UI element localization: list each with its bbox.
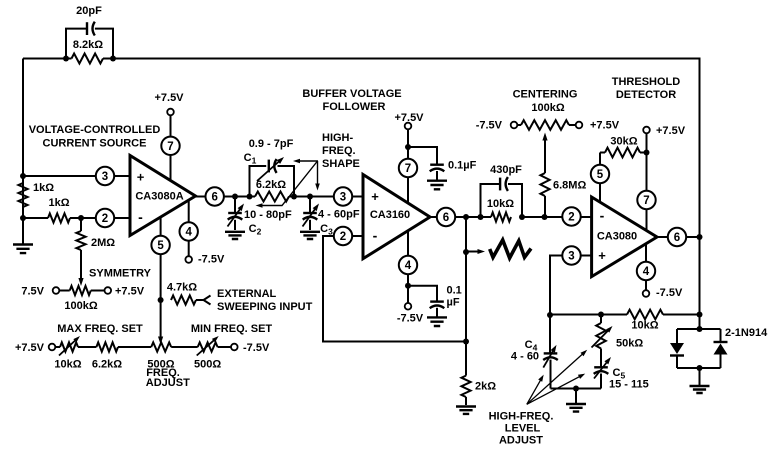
svg-text:7: 7 (643, 195, 649, 207)
svg-text:-7.5V: -7.5V (397, 313, 424, 325)
terminal +7.5V freq row (49, 344, 56, 351)
svg-text:BUFFER VOLTAGE: BUFFER VOLTAGE (302, 88, 401, 100)
svg-text:+7.5V: +7.5V (15, 342, 45, 354)
wire CA3160 output (430, 216, 491, 218)
svg-text:7: 7 (167, 141, 173, 153)
label -7.5V CA3160 (397, 313, 424, 325)
pin 2 CA3080A (96, 209, 114, 227)
node 2M tap (78, 215, 84, 221)
node hysteresis right (697, 312, 703, 318)
svg-text:2kΩ: 2kΩ (475, 381, 496, 393)
svg-text:EXTERNAL: EXTERNAL (217, 288, 277, 300)
node C1-box left (247, 194, 253, 200)
op-amp U3 CA3080 threshold (592, 197, 657, 277)
label CA3080 (597, 231, 637, 243)
resistor 6.2k&#937; freq row (96, 342, 118, 351)
ground 0.1uF pin4 (427, 317, 447, 326)
label HIGH-FREQ. SHAPE (322, 132, 360, 170)
terminal -7.5V centering (511, 122, 518, 129)
label C2 (249, 223, 262, 237)
label +7.5V CA3160 (394, 112, 424, 124)
node 30k junction (644, 150, 650, 156)
node CA3160 pin7 cap tap (405, 144, 411, 150)
terminal -7.5V freq row (231, 344, 238, 351)
wire pin 7 supply CA3080A (170, 112, 172, 181)
node 6.8M tap (542, 214, 548, 220)
pin 5 CA3080 threshold (591, 165, 609, 183)
svg-text:SYMMETRY: SYMMETRY (89, 268, 152, 280)
pin 7 CA3160 (399, 159, 417, 177)
capacitor 20pF (parallel, top loop) (66, 22, 113, 59)
label 8.2k&#937; (73, 39, 103, 51)
svg-text:HIGH-FREQ.: HIGH-FREQ. (489, 411, 554, 423)
label 6.8M&#937; (553, 180, 586, 192)
wire pin5 to freq-adjust arrow (158, 300, 163, 345)
label 100k&#937; symmetry (64, 300, 97, 312)
label 1k&#937; vertical (33, 182, 54, 194)
svg-text:1kΩ: 1kΩ (33, 182, 54, 194)
wire 2M to symmetry wiper arrow (78, 250, 83, 286)
wire 1k to pin 2 (70, 217, 130, 219)
pin 6 CA3080A (206, 187, 224, 205)
svg-text:100kΩ: 100kΩ (531, 102, 564, 114)
wire pin 4 CA3160 (407, 231, 409, 307)
terminal -7.5V threshold (643, 290, 650, 297)
node top-left of 8.2k (63, 56, 69, 62)
wire to CA3160 pin3 (294, 196, 363, 198)
op-amp U1 CA3080A (130, 156, 196, 236)
resistor 6.8M&#937; (540, 153, 549, 217)
resistor 2k&#937; (461, 342, 470, 406)
label CURRENT SOURCE (43, 138, 147, 150)
label 4 - 60 (511, 351, 539, 363)
svg-text:-7.5V: -7.5V (476, 120, 503, 132)
svg-text:10kΩ: 10kΩ (487, 198, 514, 210)
op-amp U2 CA3160 (363, 175, 430, 259)
svg-text:+7.5V: +7.5V (154, 92, 184, 104)
label 15 - 115 (609, 379, 649, 391)
svg-text:MIN FREQ. SET: MIN FREQ. SET (191, 323, 273, 335)
wire 500-500 (171, 346, 198, 348)
label HIGH-FREQ. (489, 411, 554, 423)
resistor 1k&#937; (vertical) (18, 183, 27, 207)
svg-text:4: 4 (405, 260, 412, 272)
node pin5 sweep tap (158, 297, 164, 303)
capacitor 430pF (481, 177, 523, 217)
label -7.5V freq row (243, 342, 270, 354)
node CA3160 output tap (463, 214, 469, 220)
svg-text:2: 2 (340, 231, 346, 243)
pin 6 CA3160 (437, 208, 455, 226)
wire diode top bus (677, 328, 721, 330)
svg-text:+7.5V: +7.5V (656, 125, 686, 137)
wire pin 2 feedback CA3160 (323, 236, 466, 342)
ground 2k (456, 407, 476, 414)
pin 3 CA3160 (334, 187, 352, 205)
label 0.1uF pin4 (447, 285, 462, 309)
pin 7 CA3080 threshold (637, 191, 655, 209)
svg-text:10kΩ: 10kΩ (54, 359, 81, 371)
label VOLTAGE-CONTROLLED (29, 124, 161, 136)
label 4 - 60pF (318, 209, 360, 221)
label C1 (244, 152, 257, 166)
wire pin 3 CA3080 threshold (550, 256, 592, 316)
arrow shape-to-C1 (293, 159, 318, 164)
svg-text:THRESHOLD: THRESHOLD (612, 76, 681, 88)
label +7.5V symmetry (115, 286, 145, 298)
svg-text:CENTERING: CENTERING (513, 89, 578, 101)
svg-text:4: 4 (643, 266, 650, 278)
arrow shape-to-C2 (256, 161, 318, 208)
terminal +7.5V symmetry right (105, 287, 112, 294)
svg-text:FREQ.: FREQ. (322, 145, 356, 157)
label 500&#937; freq adjust (147, 359, 174, 371)
wire top rail to right side (113, 59, 700, 330)
svg-text:ADJUST: ADJUST (146, 377, 190, 389)
capacitor 0.1uF (pin4 bypass) (408, 286, 444, 317)
label SWEEPING INPUT (217, 301, 313, 313)
potentiometer 50k&#937; (592, 315, 613, 349)
svg-text:5: 5 (597, 169, 604, 181)
svg-text:-7.5V: -7.5V (656, 287, 683, 299)
svg-text:100kΩ: 100kΩ (64, 300, 97, 312)
label +7.5V threshold (656, 125, 686, 137)
wire pin 5 CA3080A (160, 217, 162, 300)
svg-text:6.2kΩ: 6.2kΩ (92, 359, 122, 371)
label C3 (320, 223, 333, 237)
ground C4/C5 (566, 389, 586, 412)
node C3 tap (307, 194, 313, 200)
svg-text:CA3080A: CA3080A (135, 191, 183, 203)
label C5 (613, 367, 626, 381)
node feedback junction (463, 339, 469, 345)
label 0.9 - 7pF (249, 138, 294, 150)
pin 6 CA3080 threshold (668, 228, 686, 246)
resistor 10k&#937; hysteresis (627, 310, 700, 320)
svg-text:LEVEL: LEVEL (505, 423, 541, 435)
label 6.2k&#937; freq row (92, 359, 122, 371)
capacitor C5 15-115 (variable) (594, 349, 611, 389)
svg-text:4 - 60: 4 - 60 (511, 351, 539, 363)
svg-text:4.7kΩ: 4.7kΩ (167, 282, 197, 294)
svg-text:4 - 60pF: 4 - 60pF (318, 209, 360, 221)
svg-text:SWEEPING INPUT: SWEEPING INPUT (217, 301, 313, 313)
label 2-1N914 (725, 327, 768, 339)
svg-text:CURRENT SOURCE: CURRENT SOURCE (43, 138, 147, 150)
ground 0.1uF pin7 (427, 181, 447, 190)
svg-text:-: - (138, 209, 143, 225)
svg-text:-: - (373, 228, 378, 244)
svg-text:20pF: 20pF (76, 5, 102, 17)
svg-text:50kΩ: 50kΩ (616, 338, 643, 350)
wire 10k-6.2k (78, 346, 96, 348)
node 50k tap (598, 312, 604, 318)
resistor 2M&#937; (76, 218, 85, 250)
ground left rail (13, 218, 33, 253)
resistor 6.2k&#937; (C1 box) (255, 192, 294, 202)
pin 2 CA3160 (334, 227, 352, 245)
pin 2 CA3080 threshold (562, 207, 580, 225)
wire 430pF box to pin2 (522, 216, 592, 218)
label CA3160 (370, 209, 410, 221)
svg-text:6: 6 (674, 232, 680, 244)
waveform triangle symbol (490, 240, 531, 258)
svg-text:ADJUST: ADJUST (499, 435, 543, 447)
label CA3080A (135, 191, 183, 203)
node diode top (697, 326, 703, 332)
node 430pF-box left (478, 214, 484, 220)
label 10k&#937; max (54, 359, 81, 371)
arrow level-to-C5 (527, 374, 585, 405)
svg-text:3: 3 (102, 171, 108, 183)
wire top-left rail to 8.2k node (23, 58, 66, 60)
label ADJUST (499, 435, 543, 447)
label 20pF (76, 5, 102, 17)
svg-text:+7.5V: +7.5V (590, 120, 620, 132)
wire CA3080A output (196, 196, 256, 198)
label BUFFER VOLTAGE (302, 88, 401, 100)
label 10k&#937; hysteresis (631, 320, 658, 332)
node top-right of 8.2k (110, 56, 116, 62)
node bottom ground tap (573, 386, 579, 392)
svg-text:0.1: 0.1 (447, 285, 462, 297)
pin 4 CA3080A (180, 222, 198, 240)
wire 500 to -7.5V terminal (218, 346, 231, 348)
svg-text:+: + (371, 189, 379, 204)
resistor 8.2k&#937; (series, top loop) (66, 54, 113, 64)
potentiometer 100k&#937; SYMMETRY (59, 286, 105, 295)
terminal +7.5V CA3080A pin7 (167, 109, 174, 116)
svg-text:430pF: 430pF (490, 164, 522, 176)
wire CA3080 output (657, 236, 700, 238)
potentiometer 10k&#937; MAX FREQ. SET (55, 336, 80, 356)
terminal +7.5V threshold (643, 127, 650, 134)
svg-text:7: 7 (405, 163, 411, 175)
node C1-box right (291, 194, 297, 200)
terminal -7.5V CA3160 (405, 303, 412, 310)
wire diode bottom bus (677, 367, 721, 369)
svg-text:CA3160: CA3160 (370, 209, 410, 221)
pin 3 CA3080 threshold (562, 246, 580, 264)
svg-text:6: 6 (443, 212, 449, 224)
label +7.5V centering (590, 120, 620, 132)
svg-text:2: 2 (102, 213, 108, 225)
label +7.5V CA3080A (154, 92, 184, 104)
resistor 4.7k&#937; (171, 295, 204, 304)
svg-text:FOLLOWER: FOLLOWER (323, 101, 386, 113)
node 430pF-box right (519, 214, 525, 220)
label 30k&#937; (610, 136, 637, 148)
svg-text:6: 6 (211, 192, 217, 204)
pin 7 CA3080A (161, 137, 179, 155)
svg-text:5: 5 (157, 240, 164, 252)
node left rail pin3 tap (20, 173, 26, 179)
arrow centering wiper (542, 133, 547, 154)
potentiometer 500&#937; MIN FREQ. SET (197, 336, 219, 356)
svg-text:1kΩ: 1kΩ (48, 197, 69, 209)
label EXTERNAL (217, 288, 277, 300)
terminal 7.5V symmetry left (53, 287, 60, 294)
label 10k&#937; threshold-in (487, 198, 514, 210)
svg-text:2-1N914: 2-1N914 (725, 327, 768, 339)
svg-text:30kΩ: 30kΩ (610, 136, 637, 148)
label 1k&#937; horizontal (48, 197, 69, 209)
svg-text:3: 3 (568, 251, 574, 263)
pin 4 CA3080 threshold (637, 262, 655, 280)
terminal +7.5V centering (576, 122, 583, 129)
capacitor C2 10-80pF (variable) (228, 197, 245, 231)
label 7.5V (21, 286, 44, 298)
capacitor C4 4-60 (variable) (543, 315, 558, 389)
label DETECTOR (616, 89, 676, 101)
label FOLLOWER (323, 101, 386, 113)
label 100k&#937; centering (531, 102, 564, 114)
svg-text:7.5V: 7.5V (21, 286, 44, 298)
label LEVEL (505, 423, 541, 435)
label CENTERING (513, 89, 578, 101)
svg-text:-: - (600, 208, 605, 224)
label C4 (525, 339, 538, 353)
svg-text:DETECTOR: DETECTOR (616, 89, 676, 101)
wire pin 5 CA3080 threshold (599, 153, 601, 203)
wire pin 4 CA3080 threshold (645, 244, 647, 294)
svg-text:SHAPE: SHAPE (322, 158, 360, 170)
label 10 - 80pF (244, 209, 292, 221)
node left rail bottom (20, 215, 26, 221)
svg-text:+: + (137, 170, 145, 185)
label 6.2k&#937; C1 box (256, 179, 286, 191)
resistor 10k&#937; (to threshold) (491, 212, 511, 221)
pin 4 CA3160 (399, 256, 417, 274)
svg-text:VOLTAGE-CONTROLLED: VOLTAGE-CONTROLLED (29, 124, 161, 136)
svg-text:-7.5V: -7.5V (198, 254, 225, 266)
node pin3 junction (547, 312, 553, 318)
label -7.5V CA3080A (198, 254, 225, 266)
svg-text:+7.5V: +7.5V (115, 286, 145, 298)
svg-text:MAX FREQ. SET: MAX FREQ. SET (57, 323, 143, 335)
label -7.5V centering (476, 120, 503, 132)
resistor 30k&#937; (600, 148, 647, 158)
ground C2 (225, 232, 245, 239)
diode D2 1N914 (right) (714, 329, 728, 368)
label 4.7k&#937; (167, 282, 197, 294)
pin 5 CA3080A (151, 236, 169, 254)
pin 3 CA3080A (96, 167, 114, 185)
capacitor C1 0.9-7pF (variable) (250, 157, 295, 197)
label SYMMETRY (89, 268, 152, 280)
label 2M&#937; (91, 237, 115, 249)
arrow waveform pointer (466, 249, 485, 254)
label MIN FREQ. SET (191, 323, 273, 335)
wire C4-C5 bottom (551, 388, 602, 390)
terminal -7.5V CA3080A pin4 (185, 256, 192, 263)
label THRESHOLD (612, 76, 681, 88)
wire hysteresis row (550, 314, 627, 316)
svg-text:-7.5V: -7.5V (243, 342, 270, 354)
label FREQ. (146, 367, 180, 379)
node diode bottom (697, 365, 703, 371)
svg-text:2MΩ: 2MΩ (91, 237, 115, 249)
svg-text:µF: µF (447, 297, 460, 309)
wire pin 4 CA3080A (188, 200, 190, 260)
diode D1 1N914 (left) (670, 329, 684, 368)
node output right rail (697, 234, 703, 240)
wire 6.2k-500 (118, 346, 151, 348)
label -7.5V threshold (656, 287, 683, 299)
wire pin 3 input CA3080A (23, 175, 130, 177)
node C2 tap (232, 194, 238, 200)
capacitor C3 4-60pF (variable) (303, 197, 320, 231)
svg-text:10kΩ: 10kΩ (631, 320, 658, 332)
svg-text:6.8MΩ: 6.8MΩ (553, 180, 586, 192)
svg-text:3: 3 (340, 192, 346, 204)
svg-text:+: + (598, 248, 606, 263)
label 2k&#937; (475, 381, 496, 393)
svg-text:+7.5V: +7.5V (394, 112, 424, 124)
capacitor 0.1uF (pin7 bypass) (408, 147, 444, 180)
label 430pF (490, 164, 522, 176)
ground diodes (690, 368, 710, 393)
wire threshold supply (646, 133, 648, 230)
arrow level-to-50k (527, 350, 587, 405)
ground C3 (300, 232, 320, 239)
node CA3160 pin4 cap tap (405, 283, 411, 289)
potentiometer 500&#937; FREQ. ADJUST (151, 342, 171, 351)
svg-text:15 - 115: 15 - 115 (609, 379, 649, 391)
svg-text:CA3080: CA3080 (597, 231, 637, 243)
arrow level-to-C4 (527, 375, 544, 405)
label ADJUST (146, 377, 190, 389)
label 0.1uF pin7 (448, 160, 477, 172)
svg-text:4: 4 (185, 227, 192, 239)
connector external sweeping input (204, 296, 211, 305)
label 50k&#937; (616, 338, 643, 350)
node waveform tap (463, 249, 469, 255)
label 500&#937; min (194, 359, 221, 371)
svg-text:10 - 80pF: 10 - 80pF (244, 209, 292, 221)
label +7.5V freq row (15, 342, 45, 354)
svg-text:6.2kΩ: 6.2kΩ (256, 179, 286, 191)
label MAX FREQ. SET (57, 323, 143, 335)
wire output down (465, 217, 467, 342)
wire left rail (22, 59, 24, 219)
svg-text:8.2kΩ: 8.2kΩ (73, 39, 103, 51)
terminal +7.5V CA3160 (405, 123, 412, 130)
svg-text:0.9 - 7pF: 0.9 - 7pF (249, 138, 294, 150)
svg-text:HIGH-: HIGH- (322, 132, 354, 144)
svg-text:0.1µF: 0.1µF (448, 160, 477, 172)
svg-text:2: 2 (568, 212, 574, 224)
arrow shape-to-C3 (315, 161, 320, 191)
resistor 1k&#937; (horizontal) (23, 213, 70, 222)
wire pin 7 supply CA3160 (407, 126, 409, 203)
potentiometer 100k&#937; CENTERING (517, 120, 575, 130)
svg-text:500Ω: 500Ω (194, 359, 221, 371)
